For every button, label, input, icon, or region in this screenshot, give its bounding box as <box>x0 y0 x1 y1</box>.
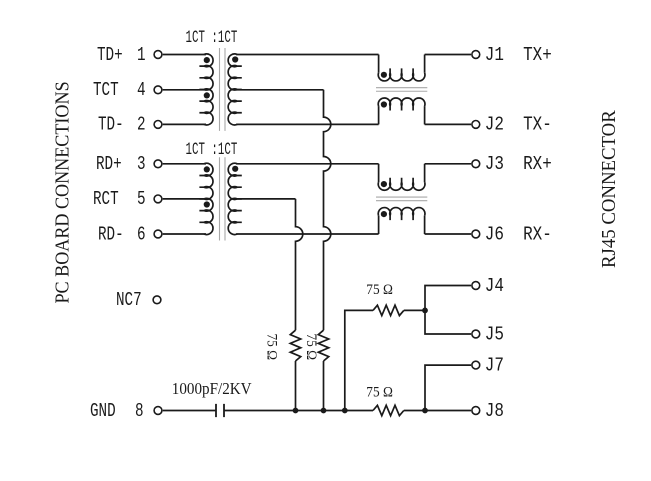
svg-text:5: 5 <box>137 189 146 210</box>
terminal J2 <box>472 121 480 129</box>
wire RX center tap down (hop over row 6) <box>296 199 303 330</box>
svg-text:75 Ω: 75 Ω <box>366 384 393 401</box>
svg-text:75 Ω: 75 Ω <box>366 281 393 298</box>
svg-text:J8: J8 <box>485 401 504 423</box>
svg-text:RD+: RD+ <box>96 154 122 175</box>
svg-text:J4: J4 <box>485 276 504 298</box>
svg-text:75 Ω: 75 Ω <box>263 334 280 361</box>
svg-text:NC7: NC7 <box>116 290 142 311</box>
svg-text:RD-: RD- <box>98 225 124 246</box>
junction J7/J8 <box>422 408 428 414</box>
svg-text:4: 4 <box>137 80 146 101</box>
transformer T1 core <box>220 48 226 131</box>
transformer T2 core <box>220 157 226 240</box>
resistor R4 75ohm body <box>373 405 404 415</box>
transformer T2 secondary winding <box>228 163 242 234</box>
pin 1 terminal <box>154 51 162 59</box>
wire choke L1 to J2 <box>425 123 472 125</box>
choke L2 top winding <box>378 164 380 182</box>
pin 2 terminal <box>154 121 162 129</box>
junction R3 branch / ground line <box>342 408 348 414</box>
wire T2 secondary bottom to choke L2 <box>236 233 378 235</box>
wire choke L1 to J1 <box>425 54 472 56</box>
svg-text:J5: J5 <box>485 324 504 346</box>
wire branch from ground line up to R3 <box>345 310 373 410</box>
terminal J7 <box>472 361 480 369</box>
terminal J8 <box>472 407 480 415</box>
wire TX center tap down (hops over rows 2,3,6) <box>324 90 331 330</box>
wire R4 to J7/J8 junction <box>404 410 471 412</box>
wire T1 secondary center tap <box>236 89 323 91</box>
transformer T2 primary winding (pins 3-5-6) <box>199 163 213 234</box>
choke L1 top dot <box>381 72 387 78</box>
transformer T1 secondary winding <box>228 54 242 125</box>
choke L1 core <box>376 88 427 92</box>
wire T2 secondary center tap <box>236 198 295 200</box>
svg-text:3: 3 <box>137 154 146 175</box>
svg-text:1: 1 <box>137 45 146 66</box>
choke L1 top winding <box>378 55 380 73</box>
junction J4/J5 <box>422 308 428 314</box>
wire pin 6 to transformer <box>163 233 206 235</box>
wire T1 secondary top to choke L1 <box>236 54 378 56</box>
wire pin 8 to capacitor <box>163 410 216 412</box>
wire junction to J4 <box>425 286 471 311</box>
pin 6 terminal <box>154 230 162 238</box>
choke L2 core <box>376 197 427 201</box>
svg-text:J7: J7 <box>485 355 504 377</box>
wire T2 secondary top to choke L2 <box>236 163 378 165</box>
wire R3 to J4/J5 junction <box>404 309 425 311</box>
resistor R2 lead to ground line <box>295 361 297 411</box>
resistor R2 75ohm (RX ct) body <box>290 330 300 361</box>
svg-text:GND: GND <box>90 401 116 422</box>
capacitor C1 1000pF/2KV <box>216 404 224 417</box>
wire pin 5 to transformer <box>163 198 206 200</box>
wire pin 3 to transformer <box>163 163 206 165</box>
junction RX resistor / ground line <box>293 408 299 414</box>
wire pin 1 to transformer <box>163 54 206 56</box>
wire pin 2 to transformer <box>163 123 206 125</box>
svg-text:J2 TX-: J2 TX- <box>485 115 552 137</box>
svg-text:J6 RX-: J6 RX- <box>485 224 552 246</box>
wire junction to J7 <box>425 365 471 410</box>
svg-text:TD+: TD+ <box>97 45 123 66</box>
wire pin 4 to transformer <box>163 89 206 91</box>
svg-text:J1 TX+: J1 TX+ <box>485 45 552 67</box>
svg-text:6: 6 <box>137 225 146 246</box>
terminal J4 <box>472 282 480 290</box>
svg-text:RCT: RCT <box>93 189 119 210</box>
wire choke L2 to J6 <box>425 233 472 235</box>
svg-text:75 Ω: 75 Ω <box>303 334 320 361</box>
choke L2 bottom winding <box>378 216 380 234</box>
pin 4 terminal <box>154 86 162 94</box>
wire junction to J5 <box>425 310 471 334</box>
choke L2 bottom dot <box>381 211 387 217</box>
terminal J3 <box>472 160 480 168</box>
T1 primary dot (pin4 half) <box>204 92 210 98</box>
wire T1 secondary bottom to choke L1 <box>236 123 378 125</box>
junction TX resistor / ground line <box>321 408 327 414</box>
pin 3 terminal <box>154 160 162 168</box>
choke L1 bottom dot <box>381 101 387 107</box>
choke L2 top dot <box>381 181 387 187</box>
svg-text:2: 2 <box>137 115 146 136</box>
T2 secondary dot <box>232 166 238 172</box>
svg-text:1CT :1CT: 1CT :1CT <box>186 29 238 48</box>
svg-text:8: 8 <box>135 401 144 422</box>
svg-text:PC BOARD CONNECTIONS: PC BOARD CONNECTIONS <box>52 81 74 303</box>
ground line capacitor to R4 <box>224 410 373 412</box>
svg-text:TCT: TCT <box>93 80 119 101</box>
terminal J5 <box>472 330 480 338</box>
pin 5 terminal <box>154 195 162 203</box>
T2 primary dot (pin3 half) <box>204 166 210 172</box>
T1 secondary dot <box>232 56 238 62</box>
T1 primary dot (pin1 half) <box>204 57 210 63</box>
resistor R1 75ohm (TX ct) body <box>318 330 328 361</box>
resistor R1 lead to ground line <box>323 361 325 411</box>
pin 8 terminal <box>154 407 162 415</box>
svg-text:1CT :1CT: 1CT :1CT <box>186 141 238 160</box>
choke L1 bottom winding <box>378 106 380 124</box>
transformer T1 primary winding (pins 1-4-2) <box>199 54 213 125</box>
terminal J1 <box>472 51 480 59</box>
T2 primary dot (pin5 half) <box>204 201 210 207</box>
pin 7 terminal (NC) <box>153 296 161 304</box>
svg-text:TD-: TD- <box>98 115 124 136</box>
svg-text:RJ45 CONNECTOR: RJ45 CONNECTOR <box>599 110 621 268</box>
svg-text:1000pF/2KV: 1000pF/2KV <box>172 380 252 398</box>
svg-text:J3 RX+: J3 RX+ <box>485 154 552 176</box>
wire choke L2 to J3 <box>425 163 472 165</box>
resistor R3 75ohm body <box>373 305 404 315</box>
terminal J6 <box>472 230 480 238</box>
